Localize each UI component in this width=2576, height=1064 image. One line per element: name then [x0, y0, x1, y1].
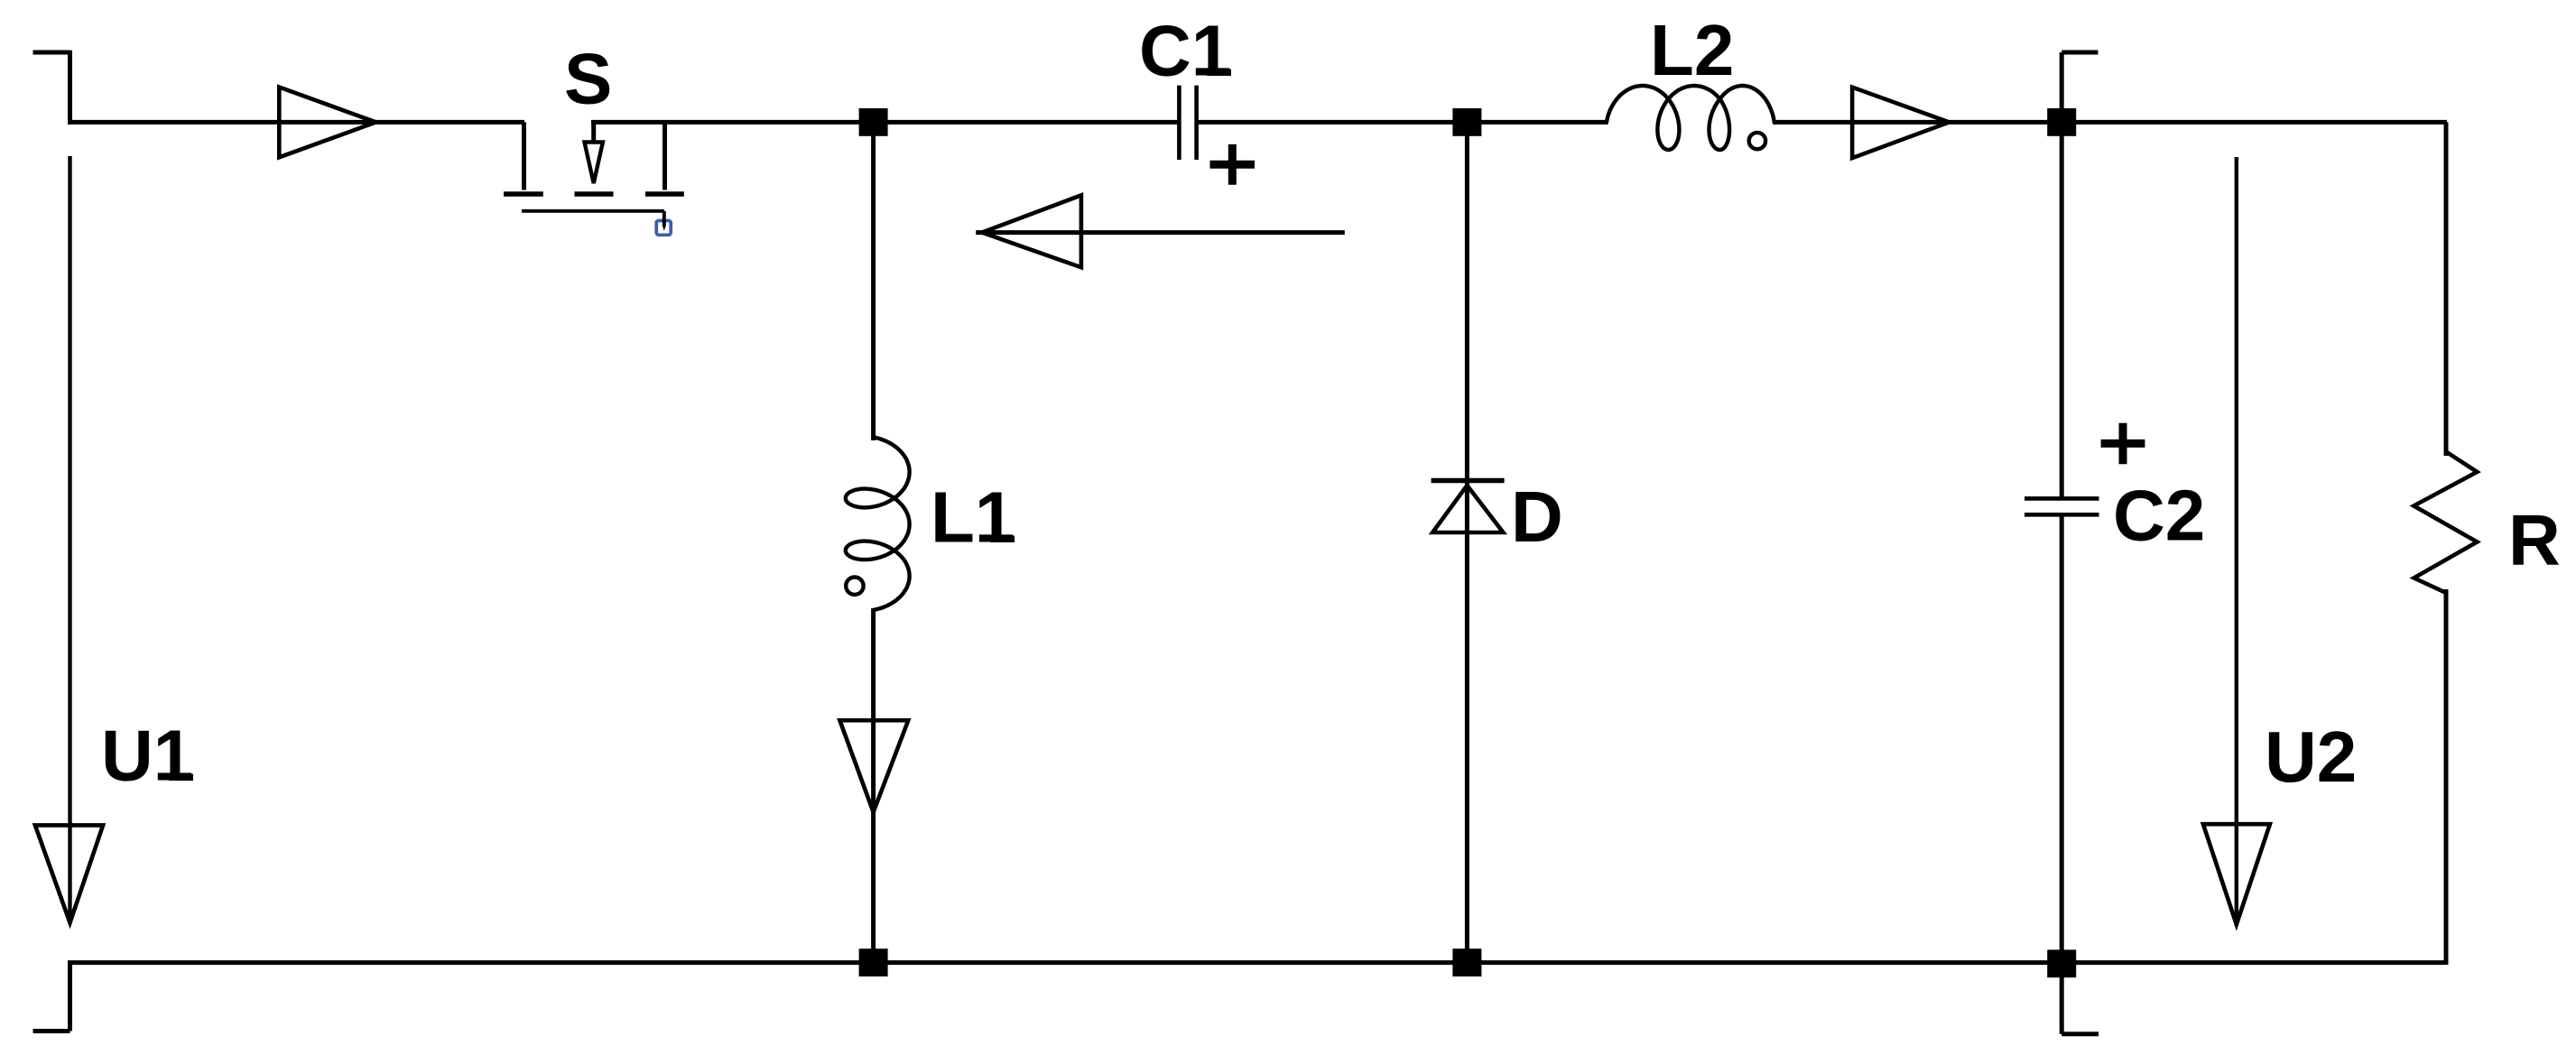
diode D anode lead — [1465, 483, 1469, 950]
svg-text:L1: L1 — [931, 477, 1015, 558]
wire bottom rail — [68, 960, 2447, 965]
capacitor C1 left plate — [1177, 86, 1181, 160]
svg-text:L2: L2 — [1650, 10, 1734, 90]
node C junction — [2047, 108, 2076, 136]
capacitor C2 top lead — [2060, 135, 2064, 498]
transistor S middle stub — [591, 122, 596, 141]
inductor L2 polarity dot — [1749, 133, 1765, 149]
polarity plus C1 — [1210, 144, 1256, 185]
transistor S right source lead — [663, 122, 667, 190]
transistor S gate bar — [522, 209, 664, 213]
current arrow input i1 — [279, 88, 375, 158]
diode D triangle — [1432, 486, 1503, 532]
voltage arrow U1 shaft — [68, 156, 71, 924]
wire top rail mid segment — [591, 120, 1179, 125]
wire input top stub — [33, 51, 70, 55]
inductor L2 coil — [1607, 86, 1774, 150]
voltage arrow U1 head — [35, 825, 103, 922]
node A junction — [859, 108, 888, 136]
node B junction — [1452, 108, 1481, 136]
current arrow C1 head — [982, 195, 1081, 267]
svg-text:U2: U2 — [2265, 717, 2357, 797]
polarity plus C2 — [2101, 423, 2145, 465]
inductor L1 bottom lead — [871, 608, 876, 950]
svg-text:S: S — [564, 39, 612, 119]
current arrow L1 — [839, 720, 908, 812]
voltage arrow U2 head — [2203, 824, 2270, 924]
wire top rail left segment — [68, 120, 524, 125]
diode D cathode bar — [1432, 478, 1505, 484]
wire top rail C1 to L2 — [1197, 120, 1608, 125]
inductor L1 polarity dot — [846, 578, 863, 595]
transistor S gate terminal box — [656, 221, 671, 236]
wire input bottom bracket — [33, 963, 70, 1032]
transistor S gate drop — [663, 211, 666, 227]
resistor R bottom lead — [2444, 589, 2449, 965]
capacitor C2 bottom lead — [2060, 516, 2064, 950]
transistor S middle pad — [575, 191, 614, 197]
transistor S left pad — [504, 191, 543, 197]
transistor S right pad — [645, 191, 684, 197]
capacitor C1 right plate — [1194, 86, 1199, 160]
resistor R zigzag — [2414, 452, 2477, 593]
current arrow C1 shaft — [976, 230, 1345, 235]
inductor L1 coil — [846, 438, 910, 610]
svg-text:U1: U1 — [101, 716, 193, 796]
diode D cathode lead — [1465, 135, 1469, 481]
node C bottom junction — [2047, 949, 2076, 977]
wire input left vertical — [68, 51, 72, 125]
svg-text:R: R — [2508, 500, 2561, 580]
capacitor C2 top plate — [2025, 496, 2099, 501]
wire top rail L2 to corner — [1774, 122, 2447, 456]
svg-text:C1: C1 — [1139, 11, 1231, 91]
wire output top bracket — [2062, 52, 2098, 108]
capacitor C2 bottom plate — [2025, 513, 2099, 517]
wire output bottom bracket — [2062, 977, 2099, 1034]
transistor S gate tip — [663, 226, 666, 231]
inductor L1 top lead — [871, 134, 876, 440]
voltage arrow U2 shaft — [2235, 157, 2238, 926]
svg-text:D: D — [1511, 476, 1563, 557]
node A bottom junction — [859, 948, 888, 976]
transistor S body arrow — [585, 143, 603, 184]
transistor S left drain lead — [522, 122, 526, 190]
svg-text:C2: C2 — [2113, 476, 2205, 556]
node B bottom junction — [1452, 948, 1481, 976]
current arrow output i2 — [1852, 88, 1949, 159]
